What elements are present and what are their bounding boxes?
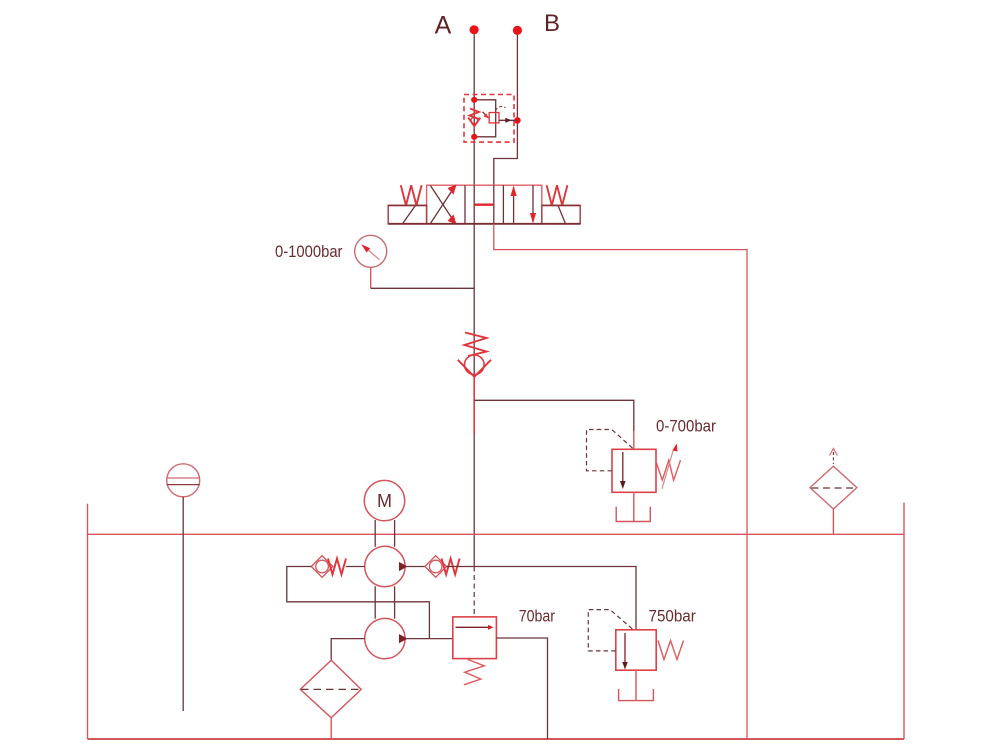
right cell arrow down [532, 185, 534, 222]
bright segment of P line below check valve [473, 377, 475, 434]
motor M circle [364, 480, 404, 520]
check valve CV-L diamond [311, 556, 333, 578]
valve cell divider right [502, 185, 504, 224]
arrow into throttle square [483, 112, 487, 116]
node: block top junction [471, 97, 477, 103]
pressure gauge circle [355, 235, 387, 267]
tank top line [88, 533, 905, 535]
node: block bottom junction [471, 134, 477, 140]
70bar internal arrow [456, 626, 489, 628]
relief valve RV1 0-700bar body [612, 449, 656, 492]
unloading valve 70bar body [453, 617, 497, 659]
check valve ball in block [471, 117, 478, 124]
750bar internal arrow [624, 633, 626, 662]
shaft motor to pump1 [374, 520, 376, 547]
750bar tank symbol [619, 689, 654, 701]
wire port A down to valve [473, 35, 475, 186]
right solenoid slash [558, 205, 566, 223]
gauge needle [367, 249, 380, 260]
level gauge chords [167, 477, 200, 479]
pilot check block inner rectangle [474, 100, 496, 137]
left solenoid box [388, 205, 426, 223]
relief valve 750bar body [616, 630, 656, 670]
node: block right junction on B line [514, 117, 521, 124]
750bar spring [658, 641, 684, 660]
middle cell B through line [493, 185, 495, 224]
check valve spring on P line [465, 333, 487, 357]
middle cell H bar [474, 203, 493, 205]
filter dashed center line [301, 688, 361, 690]
port A dot [470, 25, 479, 34]
check valve CV-R diamond [425, 556, 447, 578]
RV1 adjust arrow [662, 451, 673, 489]
left solenoid slash [403, 205, 416, 223]
wire P line valve to pump junction [473, 224, 475, 567]
breather dashed center line [812, 487, 857, 489]
wire port B down [494, 35, 518, 185]
wire pump2 suction [331, 639, 365, 661]
RV1 internal arrow [622, 452, 624, 481]
right spring W [547, 185, 568, 205]
breather stem [832, 509, 834, 534]
tank left wall [87, 504, 89, 739]
port B dot [513, 26, 522, 35]
pump P1 circle [365, 546, 405, 586]
pump P2 arrow [399, 634, 408, 643]
tank bottom [88, 738, 905, 740]
svg-text:0-1000bar: 0-1000bar [275, 242, 343, 261]
pilot check block dashed enclosure [464, 95, 514, 143]
750bar pilot dashed [588, 610, 633, 651]
svg-text:0-700bar: 0-700bar [656, 417, 716, 436]
filter stub to tank bottom [330, 718, 332, 739]
valve heavy bottom edge [388, 223, 580, 225]
breather dashed arrow [830, 449, 838, 456]
check valve CV-R spring [442, 559, 460, 575]
check valve spring in block [470, 109, 480, 120]
shaft pump1 to pump2 [374, 586, 376, 618]
wire gauge to P line [370, 267, 372, 288]
directional valve body [427, 185, 542, 224]
svg-text:M: M [377, 491, 392, 511]
left cell crossed arrow 2 [431, 186, 456, 224]
level gauge stem [182, 497, 184, 711]
level gauge circle [167, 464, 200, 497]
pump P2 circle [365, 618, 405, 658]
wire pump1 right to check valve [405, 566, 425, 568]
right solenoid box [542, 205, 580, 223]
wire T line valve to tank via right side [494, 224, 747, 739]
valve cell divider left [464, 185, 466, 224]
wire high pressure manifold to 750bar valve [447, 567, 637, 630]
tank right wall [903, 503, 905, 739]
wire pump2 output to unloading valve [405, 638, 453, 640]
middle cell A through line [473, 185, 475, 224]
RV1 spring [656, 460, 681, 480]
check valve seat in block [468, 118, 480, 127]
breather diamond [810, 466, 857, 509]
dashed pilot to 70bar valve [473, 567, 475, 617]
wire P line branch to relief valve [474, 400, 634, 431]
svg-text:B: B [544, 10, 560, 37]
check valve CV-L spring [328, 559, 346, 575]
RV1 outlet wire [633, 492, 635, 521]
wire pump1 left to check valve [346, 566, 365, 568]
dashed pilot curve above square [496, 107, 506, 111]
solenoid box top edges [388, 204, 426, 206]
70bar spring below [464, 660, 484, 685]
wire block to B with arrowhead [499, 119, 517, 121]
750bar outlet wire [635, 670, 637, 700]
svg-text:70bar: 70bar [519, 607, 556, 625]
pump P1 arrow [399, 562, 408, 571]
svg-text:A: A [435, 12, 452, 40]
throttle square in block [489, 113, 499, 123]
suction filter diamond [300, 660, 361, 718]
RV1 tank symbol [616, 507, 650, 522]
svg-text:750bar: 750bar [649, 607, 697, 625]
RV1 pilot dashed [587, 430, 634, 471]
left spring W [401, 185, 422, 205]
right cell arrow up [513, 187, 515, 224]
check valve seat on P line [458, 360, 491, 377]
70bar outlet wire to tank [496, 638, 547, 739]
check valve ball on P line [465, 355, 485, 375]
wire left loop [287, 567, 430, 639]
left cell crossed arrow 1 [431, 186, 456, 224]
